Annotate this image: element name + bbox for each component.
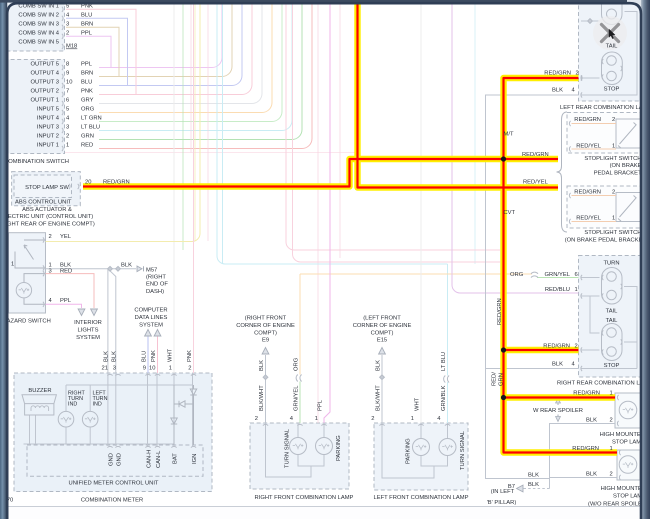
svg-text:3: 3 bbox=[66, 22, 69, 28]
svg-text:CAN-H: CAN-H bbox=[147, 450, 153, 468]
svg-text:STOPLIGHT SWITCH: STOPLIGHT SWITCH bbox=[584, 230, 641, 236]
wire bridge BRN comb-sw bbox=[97, 27, 119, 76]
svg-text:COMB SW IN 2: COMB SW IN 2 bbox=[18, 13, 59, 19]
svg-text:INPUT 1: INPUT 1 bbox=[37, 143, 59, 149]
svg-text:PPL: PPL bbox=[81, 31, 93, 37]
pin bumps combination switch connector bbox=[62, 7, 63, 151]
meter top bus bbox=[66, 384, 193, 386]
svg-text:BAT: BAT bbox=[173, 453, 179, 464]
svg-text:ORG: ORG bbox=[81, 107, 95, 113]
stoplight switch CVT body bbox=[616, 193, 641, 222]
wire RED/YEL stoplight CVT pin1 bbox=[572, 221, 617, 223]
svg-text:TAIL: TAIL bbox=[606, 309, 619, 315]
wire PPL comb-sw in4 bbox=[66, 35, 97, 37]
svg-text:1: 1 bbox=[169, 366, 172, 372]
svg-text:STOP LAMP SW: STOP LAMP SW bbox=[25, 185, 69, 191]
wire comb-sw INPUT 4 LT GRN bbox=[99, 0, 282, 122]
svg-text:8: 8 bbox=[66, 62, 69, 68]
svg-text:1: 1 bbox=[610, 391, 613, 397]
svg-text:COMPUTER: COMPUTER bbox=[134, 308, 167, 314]
svg-text:UNIFIED METER CONTROL UNIT: UNIFIED METER CONTROL UNIT bbox=[69, 481, 159, 487]
wire BLK right rear lamp pin4 bbox=[486, 368, 579, 370]
svg-text:PNK: PNK bbox=[187, 350, 193, 362]
svg-text:ELECTRIC UNIT (CONTROL UNIT): ELECTRIC UNIT (CONTROL UNIT) bbox=[1, 214, 93, 220]
lamp left turn ind bbox=[82, 411, 98, 427]
svg-text:2: 2 bbox=[371, 416, 374, 422]
svg-text:TURN SIGNAL: TURN SIGNAL bbox=[285, 428, 291, 468]
junction node right rear stop branch bbox=[501, 347, 506, 352]
high mounted stop lamp w spoiler box bbox=[615, 393, 641, 428]
svg-text:GRY: GRY bbox=[81, 98, 94, 104]
svg-text:INPUT 5: INPUT 5 bbox=[37, 107, 59, 113]
combination switch row labels bbox=[18, 4, 59, 149]
bottom page edge line bbox=[7, 506, 641, 508]
wire PPL hazard drop bbox=[46, 304, 82, 308]
svg-text:RED/GRN: RED/GRN bbox=[497, 298, 503, 325]
svg-text:CAN-L: CAN-L bbox=[156, 450, 162, 468]
wire comb-sw OUTPUT 2 PNK bbox=[99, 0, 252, 95]
wire faint pink vertical c bbox=[339, 0, 341, 258]
svg-text:RED/GRN: RED/GRN bbox=[574, 117, 601, 123]
svg-text:BLK: BLK bbox=[103, 351, 109, 362]
glow behind tail X bbox=[593, 16, 627, 50]
pin bumps high mounted stop lamps bbox=[617, 395, 618, 400]
svg-text:(LEFT FRONT: (LEFT FRONT bbox=[363, 316, 401, 322]
svg-text:6: 6 bbox=[66, 98, 69, 104]
svg-text:STOP: STOP bbox=[604, 363, 620, 369]
svg-text:BLK: BLK bbox=[111, 351, 117, 362]
svg-text:GRN/BLK: GRN/BLK bbox=[441, 385, 447, 411]
wire comb-sw OUTPUT 4 BRN bbox=[99, 0, 232, 77]
wire BLK E15 column bbox=[381, 355, 383, 423]
svg-text:3: 3 bbox=[49, 268, 52, 274]
svg-text:STOPLIGHT SWITCH: STOPLIGHT SWITCH bbox=[584, 156, 641, 162]
svg-text:TAIL: TAIL bbox=[606, 318, 619, 324]
svg-text:BLK/WHT: BLK/WHT bbox=[376, 385, 382, 411]
wire faint cyan vertical d bbox=[474, 0, 476, 264]
svg-text:HIGH MOUNTED: HIGH MOUNTED bbox=[600, 432, 645, 438]
svg-text:2: 2 bbox=[188, 366, 191, 372]
svg-text:COMB SW IN 5: COMB SW IN 5 bbox=[18, 40, 59, 46]
svg-text:INTERIOR: INTERIOR bbox=[74, 320, 102, 326]
svg-text:(W/O REAR SPOILER: (W/O REAR SPOILER bbox=[588, 501, 646, 507]
wire BRN comb-sw in3 bbox=[66, 26, 97, 28]
diode IGN column bbox=[190, 385, 196, 445]
stoplight switch CVT box bbox=[567, 186, 645, 228]
interior lights system label bbox=[74, 320, 102, 341]
stoplight switch M/T blade bbox=[618, 123, 637, 149]
svg-text:2: 2 bbox=[612, 190, 615, 196]
wire WHT meter BAT bbox=[173, 0, 175, 373]
svg-text:BLU: BLU bbox=[81, 80, 92, 86]
svg-text:PEDAL BRACKET: PEDAL BRACKET bbox=[594, 170, 642, 176]
svg-text:(RIGHT: (RIGHT bbox=[146, 275, 166, 281]
svg-text:BLK: BLK bbox=[552, 88, 563, 94]
wire comb-sw OUTPUT 1 GRY bbox=[99, 0, 262, 104]
connector break ORG to GRN/YEL rear bbox=[531, 272, 538, 277]
connector break right front lamp GRN/YEL bbox=[296, 375, 301, 382]
wire bridge PPL comb-sw bbox=[97, 36, 111, 67]
bulb left rear tail (clipped) bbox=[602, 0, 623, 25]
svg-text:(RIGHT FRONT: (RIGHT FRONT bbox=[245, 316, 287, 322]
svg-text:CORNER OF ENGINE: CORNER OF ENGINE bbox=[236, 323, 295, 329]
svg-text:BLK/WHT: BLK/WHT bbox=[259, 385, 265, 411]
svg-text:BLU: BLU bbox=[141, 351, 147, 362]
svg-text:INPUT 4: INPUT 4 bbox=[37, 116, 60, 122]
svg-text:RIGHT REAR COMBINATION LAMP: RIGHT REAR COMBINATION LAMP bbox=[557, 381, 650, 387]
buzzer bbox=[22, 395, 56, 415]
hazard switch box bbox=[9, 233, 46, 313]
svg-text:6: 6 bbox=[575, 272, 578, 278]
arrow interior lights PPL bbox=[78, 309, 85, 316]
wire BLK high mounted lamp w spoiler bbox=[550, 424, 616, 489]
svg-text:2: 2 bbox=[66, 31, 69, 37]
left front lamp inner wiring bbox=[382, 423, 448, 478]
wire bridge BLU comb-sw bbox=[97, 18, 128, 85]
wire BLK drop meter pin21 bbox=[107, 269, 109, 373]
wire BLK drop meter pin3 bbox=[108, 269, 116, 373]
combination switch connector box M18 bbox=[4, 0, 65, 51]
svg-text:(RIGHT REAR OF ENGINE COMPT): (RIGHT REAR OF ENGINE COMPT) bbox=[0, 221, 95, 227]
svg-text:RED/YEL: RED/YEL bbox=[576, 144, 602, 150]
svg-text:9: 9 bbox=[66, 71, 69, 77]
svg-text:DASH): DASH) bbox=[146, 289, 164, 295]
svg-text:SYSTEM: SYSTEM bbox=[139, 323, 163, 329]
W REAR SPOILER dashed arrows bbox=[557, 400, 559, 419]
svg-text:HIGH MOUNTED: HIGH MOUNTED bbox=[601, 486, 646, 492]
wire YEL hazard stub bbox=[46, 241, 193, 243]
hazard blade arrowhead bbox=[24, 245, 27, 248]
wire GRN/YEL seg right front lamp bbox=[299, 382, 301, 424]
svg-text:W REAR SPOILER: W REAR SPOILER bbox=[533, 408, 583, 414]
svg-text:IND: IND bbox=[68, 402, 77, 408]
M57 arrow bbox=[137, 266, 142, 272]
svg-text:ORG: ORG bbox=[294, 357, 300, 371]
svg-text:1: 1 bbox=[575, 287, 578, 293]
svg-text:TURN SIGNAL: TURN SIGNAL bbox=[460, 430, 466, 470]
wire LT BLU vertical bbox=[222, 0, 224, 264]
connector break left front lamp GRN/BLK bbox=[444, 376, 449, 383]
svg-text:YEL: YEL bbox=[60, 234, 72, 240]
svg-text:2: 2 bbox=[255, 416, 258, 422]
svg-text:GRN/YEL: GRN/YEL bbox=[294, 385, 300, 411]
meter col BAT bbox=[173, 373, 175, 446]
svg-text:COMPT): COMPT) bbox=[254, 331, 277, 337]
svg-text:2: 2 bbox=[610, 418, 613, 424]
svg-text:PARKING: PARKING bbox=[336, 435, 342, 461]
left front lamp wire labels bbox=[376, 352, 448, 411]
svg-text:2: 2 bbox=[612, 117, 615, 123]
svg-text:CORNER OF ENGINE: CORNER OF ENGINE bbox=[353, 323, 412, 329]
svg-text:OUTPUT 3: OUTPUT 3 bbox=[30, 80, 59, 86]
svg-text:RED/YEL: RED/YEL bbox=[576, 216, 602, 222]
arrow w rear spoiler up bbox=[556, 398, 561, 403]
svg-text:1: 1 bbox=[612, 144, 615, 150]
pin bumps left rear lamp bbox=[581, 75, 582, 80]
wire RED/GRN stoplight CVT pin2 bbox=[572, 195, 617, 197]
wire BLK high mounted lamp w/o spoiler bbox=[550, 477, 618, 479]
svg-text:OUTPUT 5: OUTPUT 5 bbox=[30, 62, 59, 68]
svg-text:RED/: RED/ bbox=[492, 372, 498, 386]
stoplight switch M/T box bbox=[567, 113, 645, 154]
wire GRN/YEL stub right rear lamp bbox=[537, 277, 579, 279]
svg-text:OUTPUT 2: OUTPUT 2 bbox=[30, 89, 59, 95]
wire BLK left rear lamp to ground trunk bbox=[486, 95, 579, 479]
svg-text:M57: M57 bbox=[146, 267, 157, 273]
right front combination lamp box bbox=[250, 423, 349, 489]
wire comb-sw INPUT 2 GRN bbox=[99, 0, 302, 140]
combination switch main connector box bbox=[4, 60, 65, 154]
svg-text:WHT: WHT bbox=[415, 397, 421, 411]
svg-text:TAIL: TAIL bbox=[606, 44, 619, 50]
svg-text:20: 20 bbox=[85, 179, 91, 185]
svg-text:BLK: BLK bbox=[586, 418, 597, 424]
arrow E9 bbox=[262, 348, 269, 355]
svg-text:M/T: M/T bbox=[504, 132, 514, 138]
svg-text:RED: RED bbox=[81, 143, 93, 149]
svg-text:PARKING: PARKING bbox=[406, 438, 412, 464]
meter bottom bus bbox=[24, 443, 175, 445]
arrow B7 ground bbox=[517, 485, 524, 492]
pin bumps stop lamp sw pin 20 bbox=[69, 184, 70, 189]
svg-text:7: 7 bbox=[66, 89, 69, 95]
left rear combination lamp box bbox=[579, 0, 646, 101]
high mounted stop lamp w/o spoiler box bbox=[617, 450, 640, 480]
svg-text:RED/GRN: RED/GRN bbox=[522, 152, 549, 158]
hazard switch labels bbox=[11, 234, 72, 304]
arrow computer data CAN-H bbox=[145, 330, 152, 337]
meter wire color labels rotated bbox=[103, 348, 193, 362]
svg-text:BLK: BLK bbox=[528, 482, 539, 488]
wire BLK E9 column bbox=[265, 355, 267, 423]
svg-text:GRN: GRN bbox=[81, 134, 94, 140]
combination switch pin numbers and colors bbox=[66, 4, 102, 149]
wire comb-sw INPUT 5 ORG bbox=[99, 0, 272, 113]
right rear combination lamp box bbox=[579, 256, 646, 378]
svg-text:BLK: BLK bbox=[121, 262, 132, 268]
connector diamonds M57 wire bbox=[108, 266, 113, 271]
highlighted wire glow RED/GRN trunk and branches bbox=[504, 78, 618, 453]
wire BLK hazard to M57 bbox=[46, 268, 137, 270]
wire ORG horizontal to right rear lamp bbox=[300, 273, 532, 275]
bulb right rear turn-tail bbox=[602, 268, 623, 305]
svg-text:ABS ACTUATOR &: ABS ACTUATOR & bbox=[22, 207, 72, 213]
bulb right front parking bbox=[316, 438, 333, 455]
bulb high mounted stop lamp w/o spoiler bbox=[619, 456, 637, 474]
lamp hazard switch bbox=[16, 283, 31, 298]
arrow computer data CAN-L bbox=[154, 330, 161, 337]
wire bridge PNK comb-sw bbox=[97, 9, 136, 94]
wire BLU comb-sw in2 bbox=[66, 17, 97, 19]
wire LT BLU drop to left front lamp bbox=[447, 264, 449, 423]
svg-text:1: 1 bbox=[411, 416, 414, 422]
svg-text:OUTPUT 4: OUTPUT 4 bbox=[30, 71, 59, 77]
svg-text:10: 10 bbox=[149, 366, 155, 372]
svg-text:IGN: IGN bbox=[192, 454, 198, 464]
svg-text:SYSTEM: SYSTEM bbox=[76, 335, 100, 341]
svg-text:HAZARD SWITCH: HAZARD SWITCH bbox=[3, 319, 51, 325]
svg-text:5: 5 bbox=[66, 107, 69, 113]
svg-text:21: 21 bbox=[102, 366, 108, 372]
X marker tail bulb bbox=[602, 25, 619, 42]
meter right turn ind column bbox=[65, 385, 67, 444]
svg-text:LEFT REAR COMBINATION LAMP: LEFT REAR COMBINATION LAMP bbox=[560, 105, 650, 111]
junction node stoplight switch feed bbox=[501, 156, 506, 161]
svg-text:PPL: PPL bbox=[81, 62, 93, 68]
pin bumps left front lamp bbox=[379, 424, 384, 425]
wire PNK meter CAN-L bbox=[157, 336, 159, 373]
svg-text:ORG: ORG bbox=[510, 272, 524, 278]
svg-text:BLU: BLU bbox=[81, 13, 92, 19]
meter pin numbers bbox=[102, 366, 192, 372]
wire ORG drop to right front lamp bbox=[299, 274, 301, 423]
pin bumps hazard switch bbox=[43, 237, 44, 242]
svg-text:2: 2 bbox=[576, 71, 579, 77]
svg-text:RIGHT FRONT COMBINATION LAMP: RIGHT FRONT COMBINATION LAMP bbox=[255, 495, 354, 501]
svg-text:LEFT FRONT COMBINATION LAMP: LEFT FRONT COMBINATION LAMP bbox=[373, 495, 468, 501]
svg-text:WHT: WHT bbox=[167, 348, 173, 362]
svg-text:LT BLU: LT BLU bbox=[81, 125, 100, 131]
svg-text:LIGHTS: LIGHTS bbox=[78, 328, 99, 334]
svg-text:CVT: CVT bbox=[504, 210, 516, 216]
wire comb-sw OUTPUT 3 BLU bbox=[99, 0, 242, 86]
ABS control unit outer box bbox=[12, 172, 81, 206]
meter col CAN-H bbox=[147, 373, 149, 446]
right rear lamp inner wiring bbox=[581, 278, 637, 369]
wire PNK comb-sw in1 bbox=[66, 8, 97, 10]
svg-text:BLK: BLK bbox=[552, 362, 563, 368]
svg-text:BLK: BLK bbox=[376, 360, 382, 371]
highlighted wire core RED/YEL from top bbox=[358, 4, 559, 188]
svg-text:1: 1 bbox=[612, 216, 615, 222]
right front lamp header bbox=[236, 316, 295, 344]
svg-text:1: 1 bbox=[66, 143, 69, 149]
arrow E15 bbox=[379, 348, 386, 355]
wire RED/BLU to right rear lamp bbox=[452, 0, 579, 293]
svg-text:E9: E9 bbox=[262, 338, 269, 344]
svg-text:(ON BRAKE: (ON BRAKE bbox=[610, 163, 642, 169]
svg-text:GND: GND bbox=[109, 453, 115, 466]
svg-text:PNK: PNK bbox=[151, 350, 157, 362]
wire faint pink vertical a bbox=[190, 0, 192, 153]
pin bumps unified meter control unit bbox=[107, 446, 112, 447]
svg-text:1: 1 bbox=[11, 262, 14, 268]
computer data lines system label bbox=[134, 308, 167, 329]
meter col CAN-L bbox=[156, 373, 158, 446]
stoplight switch M/T body bbox=[616, 119, 641, 148]
svg-text:(ON BRAKE PEDAL BRACKET: (ON BRAKE PEDAL BRACKET bbox=[565, 238, 647, 244]
pin bumps right front lamp bbox=[263, 424, 268, 425]
svg-text:2: 2 bbox=[575, 343, 578, 349]
lamp right turn ind bbox=[58, 411, 74, 427]
svg-text:INPUT 2: INPUT 2 bbox=[37, 134, 59, 140]
svg-text:LT BLU: LT BLU bbox=[441, 352, 447, 371]
svg-text:'B' PILLAR): 'B' PILLAR) bbox=[487, 500, 517, 506]
bulb right rear tail-stop bbox=[602, 324, 623, 361]
junction node high mounted branch bbox=[501, 395, 506, 400]
svg-text:BLK: BLK bbox=[259, 360, 265, 371]
svg-text:1: 1 bbox=[610, 446, 613, 452]
highlighted wire glow RED/YEL from top bbox=[358, 4, 559, 188]
svg-text:2: 2 bbox=[610, 472, 613, 478]
svg-text:PPL: PPL bbox=[60, 298, 72, 304]
svg-text:2: 2 bbox=[66, 134, 69, 140]
svg-text:OUTPUT 1: OUTPUT 1 bbox=[30, 98, 59, 104]
left front lamp header bbox=[353, 316, 412, 344]
wire YEL hazard bbox=[46, 0, 201, 242]
wire PNK vertical pair bbox=[286, 0, 500, 250]
brace stoplight switches bbox=[557, 112, 568, 232]
svg-text:(IN LEFT: (IN LEFT bbox=[491, 489, 515, 495]
svg-text:RED: RED bbox=[60, 268, 72, 274]
meter col GND 3 bbox=[115, 373, 117, 446]
wire RED hazard drop bbox=[46, 274, 95, 308]
wire RED/GRN stoplight M/T pin2 bbox=[572, 123, 617, 125]
svg-text:COMB SW IN 3: COMB SW IN 3 bbox=[18, 22, 59, 28]
svg-text:COMB SW IN 4: COMB SW IN 4 bbox=[18, 31, 59, 37]
svg-text:TURN: TURN bbox=[603, 261, 619, 267]
svg-text:BUZZER: BUZZER bbox=[28, 388, 51, 394]
diode horizontal row bbox=[174, 401, 194, 407]
svg-text:GND: GND bbox=[117, 453, 123, 466]
highlighted wire glow RED/GRN from ABS pin 20 bbox=[83, 159, 558, 187]
svg-text:RED/BLU: RED/BLU bbox=[545, 287, 570, 293]
meter col IGN bbox=[192, 373, 194, 446]
svg-text:LT GRN: LT GRN bbox=[81, 116, 102, 122]
pin bumps meter top bbox=[107, 374, 112, 375]
svg-text:GRN: GRN bbox=[499, 373, 505, 386]
svg-text:GRN/YEL: GRN/YEL bbox=[545, 272, 571, 278]
wire WHT to left front lamp bbox=[420, 0, 422, 423]
stoplight switch CVT blade bbox=[618, 196, 637, 222]
left front combination lamp box bbox=[374, 423, 468, 490]
wire PPL to right front lamp bbox=[324, 0, 330, 423]
svg-text:M18: M18 bbox=[66, 44, 77, 50]
pin bumps stoplight switches bbox=[569, 121, 570, 126]
meter col GND 21 bbox=[107, 373, 109, 446]
combination meter box bbox=[14, 373, 212, 492]
wire PNK meter IGN bbox=[193, 0, 195, 373]
svg-text:2: 2 bbox=[49, 234, 52, 240]
bulb left front parking bbox=[413, 439, 430, 456]
svg-text:COMPT): COMPT) bbox=[371, 331, 394, 337]
meter left turn ind column bbox=[89, 385, 91, 444]
highlighted wire core RED/GRN from ABS pin 20 bbox=[83, 159, 558, 187]
svg-text:COMBINATION SWITCH: COMBINATION SWITCH bbox=[4, 159, 69, 165]
highlighted wire core RED/GRN trunk and branches bbox=[504, 78, 618, 453]
svg-text:BRN: BRN bbox=[81, 71, 93, 77]
connector diamond E15 bbox=[380, 375, 385, 380]
svg-text:BRN: BRN bbox=[81, 22, 93, 28]
svg-text:E15: E15 bbox=[377, 338, 387, 344]
arrow interior lights RED bbox=[91, 309, 98, 316]
wire BLU meter CAN-H bbox=[147, 336, 149, 373]
wire faint pink vertical b bbox=[207, 0, 209, 241]
svg-text:RED/GRN: RED/GRN bbox=[543, 343, 570, 349]
svg-text:INPUT 3: INPUT 3 bbox=[37, 125, 59, 131]
right front lamp wire labels bbox=[259, 357, 324, 411]
svg-text:RED/GRN: RED/GRN bbox=[574, 190, 601, 196]
connector diamond left rear lamp bbox=[588, 19, 593, 24]
svg-text:9: 9 bbox=[143, 366, 146, 372]
svg-text:BLK: BLK bbox=[586, 472, 597, 478]
svg-text:STOP: STOP bbox=[604, 87, 620, 93]
wire comb-sw INPUT 1 RED bbox=[99, 0, 312, 149]
svg-text:10: 10 bbox=[66, 80, 72, 86]
svg-text:PNK: PNK bbox=[81, 89, 93, 95]
arrow w rear spoiler down bbox=[556, 417, 561, 422]
meter buzzer legs bbox=[30, 415, 36, 444]
